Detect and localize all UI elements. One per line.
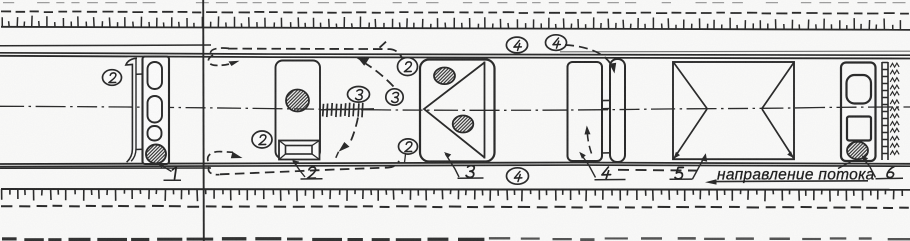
vertical section line bbox=[202, 0, 205, 241]
callout circle 4 (top left) bbox=[506, 37, 527, 53]
component 3 housing bbox=[420, 60, 495, 162]
channel centerline (dash-dot axis) bbox=[0, 106, 910, 110]
bottom embankment hatching ruler bbox=[1, 188, 910, 191]
screen leader bottom arrowhead bbox=[339, 142, 350, 152]
component 4 connectors bbox=[602, 100, 610, 153]
component 5 envelope diagonals bbox=[674, 63, 794, 158]
component 3 hatched circle lower bbox=[453, 116, 474, 133]
component 4 left gate body bbox=[568, 62, 603, 161]
bottom eddy arrowhead bbox=[231, 152, 243, 158]
component 1 guide bracket bbox=[126, 58, 137, 162]
left flow arrowhead on top dashed line bbox=[357, 58, 370, 64]
label 2 text bbox=[307, 167, 317, 178]
screen grid bars bbox=[320, 109, 374, 110]
callout circle 2 (at gate) bbox=[103, 70, 122, 86]
top bank dashed boundary line bbox=[1, 11, 909, 13]
component 5 corner arrowheads bbox=[674, 152, 681, 159]
top channel wall double line bbox=[0, 53, 910, 56]
label 1 text bbox=[171, 167, 176, 179]
top eddy curl (dashed) bbox=[210, 48, 229, 56]
component 3 diagonals bbox=[424, 63, 485, 158]
callout circle 3 (right) bbox=[386, 89, 403, 105]
callout circle 3 (left) bbox=[348, 87, 370, 103]
label 1 leader bbox=[159, 164, 172, 172]
component 6 hatched roller bbox=[847, 142, 868, 160]
bottom eddy curl (dashed) bbox=[208, 152, 233, 162]
component 6 fuzzy edge squiggles bbox=[890, 63, 899, 155]
stray dash of flow line bbox=[380, 42, 387, 48]
component 2 hatched circle bbox=[286, 90, 309, 112]
component 6 ladder grate bbox=[882, 62, 888, 160]
screen leader top arrowhead bbox=[358, 58, 369, 66]
component 1 slot lower bbox=[148, 126, 162, 141]
bottom recess dashed flow line bbox=[220, 161, 399, 175]
label 3 text bbox=[466, 166, 475, 178]
label 2 leader bbox=[293, 161, 305, 177]
label 6 leader bbox=[862, 158, 876, 178]
dashed flow line between components 4 and 5 bbox=[618, 169, 697, 172]
component 1 slot upper bbox=[148, 62, 163, 89]
dashed leader from screen to channel bbox=[351, 118, 358, 141]
component 1 slot middle bbox=[148, 96, 163, 123]
component 4 right gate body bbox=[610, 59, 625, 162]
label 4 text bbox=[601, 167, 611, 179]
component 5 box bbox=[673, 62, 794, 159]
flow arrow inside component 4 (dashed) bbox=[587, 132, 591, 154]
component 2 bevel frame outer bbox=[279, 141, 320, 160]
callout 4 leader arrowhead bbox=[609, 63, 616, 74]
top recess dashed flow line bbox=[228, 49, 405, 65]
faint dashed line at top edge bbox=[3, 2, 906, 4]
bottom channel wall double line bbox=[0, 162, 910, 164]
top outer wall edge line (right segment) bbox=[560, 50, 910, 53]
callout circle 4 (top right) bbox=[546, 35, 567, 51]
flow text leader tick bbox=[838, 162, 851, 169]
component 2 bevel frame inner bbox=[286, 146, 313, 155]
component 2 body bbox=[276, 61, 321, 159]
flow direction underline arrow bbox=[713, 180, 868, 183]
component 6 rounded port bbox=[847, 75, 872, 104]
label 5 text bbox=[675, 167, 684, 178]
top outer wall edge line (left segment) bbox=[0, 44, 211, 47]
component 3 hatched circle upper bbox=[434, 68, 455, 85]
label 3 leader bbox=[446, 154, 460, 177]
top eddy arrowhead bbox=[229, 61, 240, 66]
callout 4 dashed leader to component 4 bbox=[565, 45, 613, 68]
component 3 inner chord bbox=[484, 62, 486, 159]
callout circle 4 (bottom) bbox=[507, 168, 529, 184]
callout circle 2 (left of component 2) bbox=[252, 131, 272, 148]
component 1 hatched roller bbox=[146, 145, 166, 164]
callout 2 bottom-right leader bbox=[405, 154, 406, 162]
top embankment hatching ruler bbox=[1, 27, 910, 30]
bottom edge heavy dash band bbox=[2, 237, 17, 240]
dashed leader from callout 3 to wall bbox=[366, 64, 394, 87]
component 1 bracket tie bbox=[136, 74, 143, 150]
component 1 gate frame bbox=[143, 57, 170, 165]
component 6 square port bbox=[847, 117, 871, 141]
label 4 leader bbox=[581, 154, 596, 178]
bottom outer wall edge line (left segment) bbox=[0, 167, 211, 169]
label 5 leader bbox=[693, 155, 706, 179]
label 6 text bbox=[887, 167, 895, 178]
callout circle 2 (bottom right) bbox=[399, 139, 418, 154]
component 6 housing bbox=[841, 63, 876, 162]
bottom bank dashed boundary line bbox=[1, 206, 909, 208]
callout circle 2 (top right) bbox=[398, 58, 418, 76]
